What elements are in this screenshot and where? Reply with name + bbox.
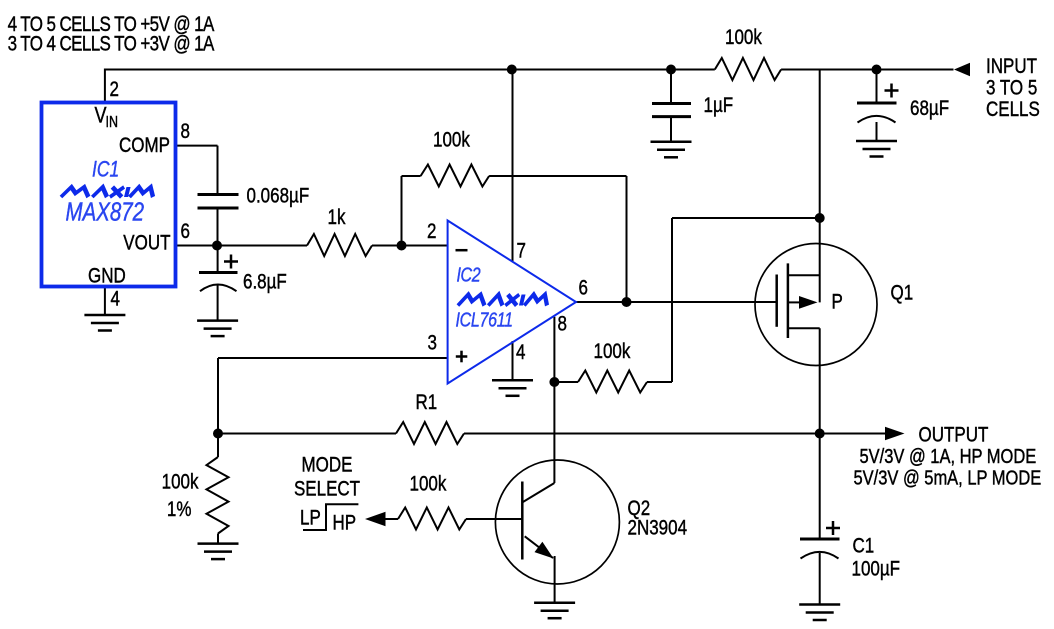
svg-text:100µF: 100µF: [852, 558, 901, 581]
svg-text:2N3904: 2N3904: [628, 517, 688, 540]
svg-text:P: P: [832, 291, 843, 314]
svg-text:GND: GND: [88, 265, 126, 288]
svg-text:6.8µF: 6.8µF: [243, 271, 287, 294]
svg-text:6: 6: [579, 277, 588, 300]
svg-text:100k: 100k: [725, 26, 762, 49]
svg-text:100k: 100k: [410, 473, 447, 496]
svg-text:2: 2: [427, 220, 436, 243]
svg-text:IC2: IC2: [457, 264, 481, 286]
svg-text:0.068µF: 0.068µF: [247, 185, 310, 208]
svg-text:8: 8: [558, 313, 567, 336]
svg-text:1%: 1%: [167, 498, 192, 521]
svg-text:Q1: Q1: [891, 282, 914, 305]
svg-text:100k: 100k: [433, 129, 470, 152]
svg-text:4: 4: [111, 288, 121, 311]
svg-text:6: 6: [181, 220, 190, 243]
svg-text:IC1: IC1: [92, 158, 119, 182]
svg-text:5V/3V @ 1A, HP MODE: 5V/3V @ 1A, HP MODE: [860, 444, 1037, 467]
svg-text:MAX872: MAX872: [66, 197, 145, 226]
svg-text:100k: 100k: [162, 471, 199, 494]
svg-text:3 TO 4 CELLS TO +3V @ 1A: 3 TO 4 CELLS TO +3V @ 1A: [8, 33, 215, 56]
svg-text:IN: IN: [106, 113, 118, 131]
svg-text:MODE: MODE: [302, 454, 353, 477]
svg-text:3: 3: [428, 332, 437, 355]
svg-text:R1: R1: [416, 391, 438, 414]
svg-text:1µF: 1µF: [704, 94, 734, 117]
svg-text:SELECT: SELECT: [294, 478, 360, 501]
svg-text:INPUT: INPUT: [986, 55, 1037, 78]
svg-text:5V/3V @ 5mA, LP MODE: 5V/3V @ 5mA, LP MODE: [854, 466, 1042, 489]
svg-text:2: 2: [110, 78, 119, 101]
svg-text:LP: LP: [300, 507, 321, 530]
svg-text:HP: HP: [333, 512, 357, 535]
svg-text:VOUT: VOUT: [123, 232, 170, 255]
svg-text:C1: C1: [853, 535, 875, 558]
svg-text:4: 4: [516, 341, 526, 364]
svg-text:COMP: COMP: [119, 134, 170, 157]
svg-text:CELLS: CELLS: [986, 98, 1040, 121]
svg-text:100k: 100k: [594, 340, 631, 363]
svg-text:3 TO 5: 3 TO 5: [986, 77, 1037, 100]
svg-text:8: 8: [181, 120, 190, 143]
svg-text:ICL7611: ICL7611: [456, 309, 513, 331]
svg-text:7: 7: [517, 240, 526, 263]
svg-text:1k: 1k: [328, 206, 346, 229]
svg-text:68µF: 68µF: [910, 97, 949, 120]
